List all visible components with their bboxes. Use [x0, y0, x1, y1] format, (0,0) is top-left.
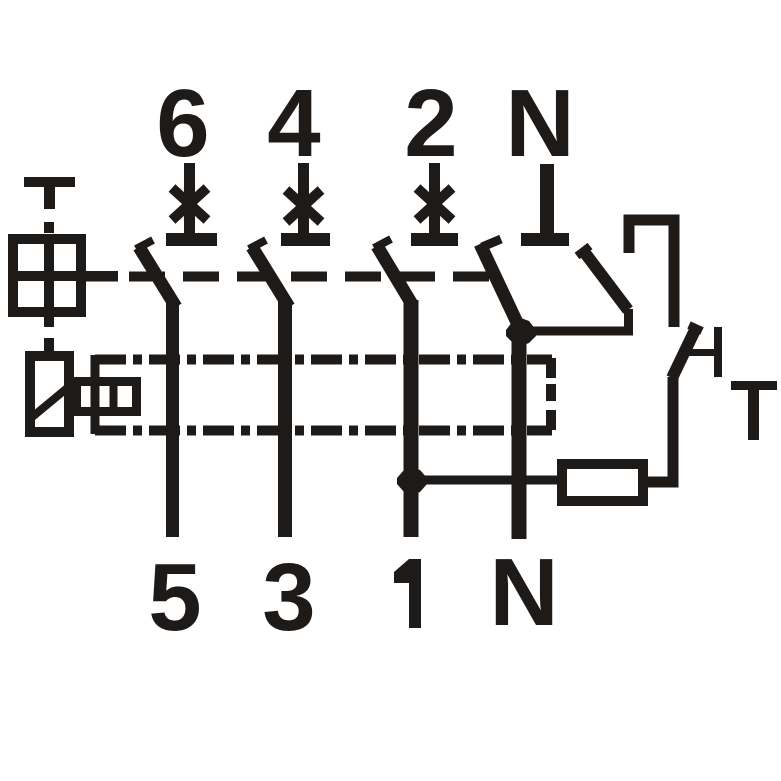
svg-text:N: N [489, 539, 558, 646]
svg-text:4: 4 [267, 70, 320, 177]
svg-text:5: 5 [148, 544, 201, 651]
svg-text:6: 6 [156, 70, 209, 177]
svg-text:N: N [505, 70, 574, 177]
svg-text:3: 3 [262, 544, 315, 651]
svg-text:2: 2 [404, 70, 457, 177]
